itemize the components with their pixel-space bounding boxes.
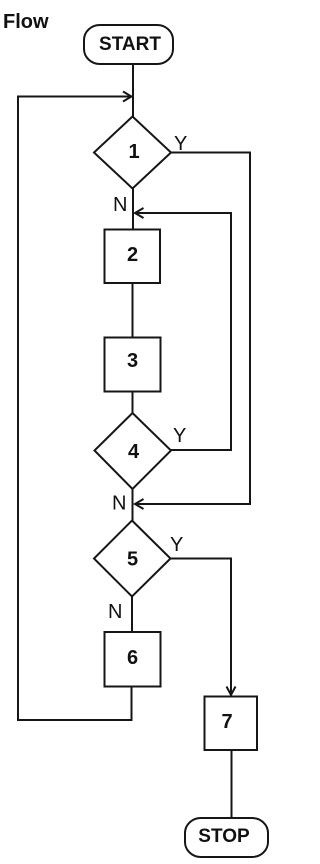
process box 6 [105,632,161,687]
svg-text:6: 6 [127,647,138,669]
wire decision 4 Y loop (right, up, left into line above process 2) [136,213,231,450]
arrowhead left-pointing at junction below decision 4 [135,499,144,509]
svg-text:Flow: Flow [3,11,49,33]
wire process 7 to STOP [231,750,233,818]
wire decision 1 N to process 2 [132,189,134,230]
svg-text:START: START [99,34,161,55]
svg-text:5: 5 [127,549,138,571]
svg-text:STOP: STOP [198,826,250,847]
wire process 2 to process 3 [132,283,134,337]
terminator STOP [185,818,268,857]
svg-text:N: N [108,601,122,623]
wire process 3 to decision 4 [132,392,134,415]
arrowhead right-pointing at top junction [123,92,132,102]
svg-text:7: 7 [221,711,232,733]
process box 2 [105,230,161,284]
svg-text:2: 2 [127,244,138,266]
svg-text:4: 4 [128,441,140,463]
svg-text:1: 1 [128,141,139,163]
process box 7 [205,697,258,751]
decision 1 [94,117,171,189]
wire big left feedback loop (box 6 bottom, down, left, up, right to main line) [18,97,132,721]
decision 5 [94,521,171,597]
arrowhead down-pointing into process 7 [227,687,236,696]
terminator START [84,25,173,64]
svg-text:Y: Y [170,534,183,556]
decision 4 [95,413,172,489]
arrowhead left-pointing at junction above process 2 [135,208,144,218]
wire decision 4 N to decision 5 [132,489,134,521]
svg-text:N: N [112,493,126,515]
wire START to decision 1 [132,64,134,117]
svg-text:Y: Y [173,425,186,447]
svg-text:N: N [113,194,127,216]
process box 3 [105,338,161,392]
wire decision 1 Y branch (right, down, left into junction below decision 4) [136,153,250,505]
wire decision 5 N to process 6 [131,597,133,633]
wire decision 5 Y branch (right, down into process 7) [171,559,232,694]
svg-text:3: 3 [127,350,138,372]
